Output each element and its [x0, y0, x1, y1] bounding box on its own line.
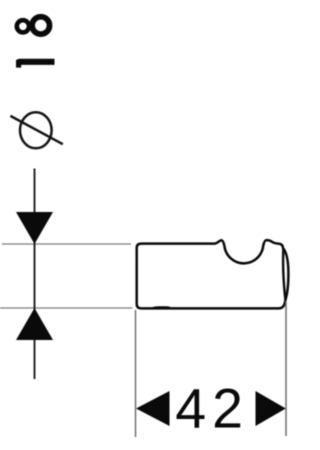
svg-text:2: 2 — [212, 377, 243, 439]
dimension label digit 8 (rotated, custom glyph) bottom bowl — [32, 17, 49, 34]
arrowhead up (d18) — [16, 308, 53, 340]
hook end face line — [283, 249, 285, 300]
dimension label digit 1 (rotated, custom glyph) — [16, 59, 55, 68]
arrowhead right (42) — [256, 391, 286, 426]
arrowhead down (d18) — [16, 212, 53, 244]
arrowhead left (42) — [136, 391, 170, 426]
extension line lower (d18 bottom) — [0, 307, 133, 309]
dimension line vertical (d18) — [34, 169, 36, 380]
hook body outline — [137, 240, 289, 308]
extension line left (42) — [135, 310, 137, 437]
dimension label digit 8 (rotated, custom glyph) top bowl — [17, 20, 29, 32]
hook bottom seam bump — [152, 307, 171, 308]
diameter symbol slash — [10, 116, 62, 144]
diameter symbol circle — [20, 112, 52, 148]
extension line right (42) — [285, 301, 287, 436]
svg-text:4: 4 — [175, 377, 206, 439]
extension line upper (d18 top) — [2, 243, 131, 245]
